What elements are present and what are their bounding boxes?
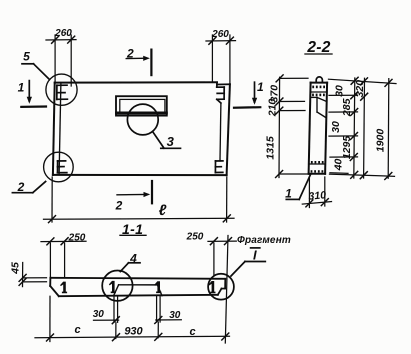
svg-text:285: 285 <box>341 98 353 117</box>
svg-text:ℓ: ℓ <box>159 202 167 219</box>
svg-text:Фрагмент: Фрагмент <box>237 235 291 246</box>
svg-text:1315: 1315 <box>265 136 277 160</box>
svg-text:930: 930 <box>124 326 143 338</box>
svg-text:1-1: 1-1 <box>122 221 143 237</box>
svg-text:1900: 1900 <box>375 129 387 153</box>
svg-text:4: 4 <box>129 251 137 265</box>
svg-text:30: 30 <box>330 121 342 133</box>
svg-text:250: 250 <box>186 232 204 243</box>
svg-text:320: 320 <box>354 80 366 98</box>
svg-text:30: 30 <box>169 310 181 321</box>
svg-text:250: 250 <box>68 232 86 243</box>
svg-text:2: 2 <box>17 180 25 194</box>
svg-text:1: 1 <box>285 187 292 201</box>
svg-text:260: 260 <box>211 29 229 40</box>
svg-text:260: 260 <box>54 28 72 39</box>
svg-text:2-2: 2-2 <box>306 39 330 56</box>
svg-text:1: 1 <box>257 80 264 94</box>
svg-text:40: 40 <box>333 159 345 172</box>
svg-text:I: I <box>253 247 257 262</box>
svg-text:45: 45 <box>10 262 22 275</box>
svg-text:c: c <box>74 324 80 336</box>
svg-text:3: 3 <box>167 134 175 149</box>
svg-text:2: 2 <box>126 47 134 61</box>
svg-text:30: 30 <box>93 309 105 320</box>
svg-text:210: 210 <box>267 99 279 118</box>
svg-text:2: 2 <box>115 199 123 213</box>
svg-text:310: 310 <box>308 189 327 202</box>
svg-text:1295: 1295 <box>341 136 353 160</box>
svg-text:c: c <box>189 326 195 338</box>
svg-text:1: 1 <box>18 80 25 94</box>
svg-text:5: 5 <box>23 50 30 64</box>
svg-text:30: 30 <box>334 85 346 97</box>
